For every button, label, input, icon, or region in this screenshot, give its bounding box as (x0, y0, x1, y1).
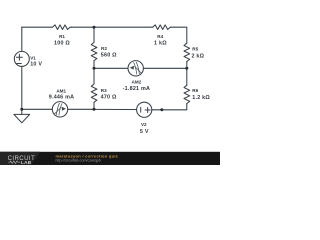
svg-text:R5: R5 (192, 46, 198, 51)
resistor R1 (52, 25, 72, 30)
svg-text:560 Ω: 560 Ω (101, 53, 117, 59)
svg-text:LAB: LAB (21, 160, 32, 165)
voltage source V1 (14, 51, 29, 66)
svg-text:R6: R6 (192, 88, 198, 93)
wire right vertical lower (186, 68, 188, 85)
svg-text:R4: R4 (157, 34, 163, 39)
wire R3 to bottom junction (93, 102, 95, 109)
svg-text:V2: V2 (141, 122, 147, 127)
labels: names (30, 34, 198, 127)
wire bottom rail left of junction (68, 108, 94, 110)
svg-text:100 Ω: 100 Ω (54, 41, 70, 47)
resistor R2 (91, 42, 97, 60)
svg-text:5 V: 5 V (140, 129, 149, 135)
wire top-left vertical (21, 27, 23, 51)
wire R2 to mid junction (93, 61, 95, 69)
svg-text:http://circuitlab.com/cswtqp6: http://circuitlab.com/cswtqp6 (56, 159, 101, 163)
ammeter AM2 (128, 61, 143, 76)
wire R6 bottom to V2 (162, 104, 187, 110)
junction R1-R4-R2 (93, 26, 96, 29)
ammeter AM1 symbol (54, 103, 62, 115)
wire AM1 to left (22, 108, 53, 110)
wire left vertical from V1 (21, 66, 23, 109)
svg-text:10 V: 10 V (30, 62, 42, 68)
svg-text:2 kΩ: 2 kΩ (192, 53, 205, 59)
junction V1-ground-bottom rail (20, 108, 23, 111)
svg-text:9.446 mA: 9.446 mA (49, 95, 74, 101)
svg-text:1.2 kΩ: 1.2 kΩ (192, 95, 210, 101)
voltage source V2 (137, 102, 152, 117)
junction R5-R6-AM2 (185, 67, 188, 70)
logo background parallelogram (0, 152, 40, 165)
wire mid branch top (93, 27, 95, 42)
ammeter AM1 (52, 102, 67, 117)
svg-text:V1: V1 (30, 55, 36, 60)
resistor R5 (184, 43, 190, 62)
wire mid rail left (94, 67, 128, 69)
wire V2 left lead to mid junction (94, 108, 137, 110)
svg-text:AM2: AM2 (132, 80, 142, 85)
resistor R6 (184, 85, 190, 104)
svg-text:AM1: AM1 (56, 89, 66, 94)
wire top rail right (171, 27, 187, 43)
wire top rail mid (71, 26, 152, 28)
wire top rail left (22, 26, 52, 28)
wire R5 to mid junction (186, 62, 188, 69)
labels: values (30, 40, 210, 134)
svg-text:470 Ω: 470 Ω (101, 95, 117, 101)
resistor R4 (152, 25, 171, 30)
svg-text:R1: R1 (59, 34, 65, 39)
svg-text:-1.821 mA: -1.821 mA (123, 86, 150, 92)
wire V2 right lead (152, 109, 162, 111)
ground (21, 109, 23, 114)
svg-text:1 kΩ: 1 kΩ (154, 40, 167, 46)
wire mid branch lower (93, 68, 95, 84)
svg-text:R2: R2 (101, 46, 107, 51)
ammeter AM2 symbol (134, 62, 142, 74)
wire mid rail right (143, 67, 186, 69)
logo zigzag (8, 161, 20, 164)
junction R3-bottom rail (93, 108, 96, 111)
footer bar (0, 152, 220, 165)
node dot after V2 (160, 108, 163, 111)
svg-text:R3: R3 (101, 88, 107, 93)
junction R2-R3-AM2 (93, 67, 96, 70)
resistor R3 (91, 84, 97, 102)
